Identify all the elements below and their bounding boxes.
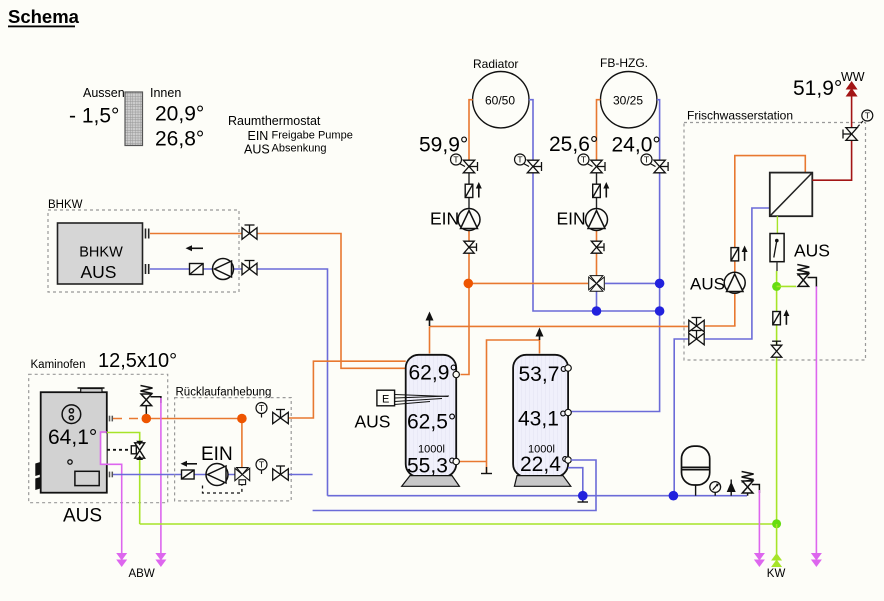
svg-text:KW: KW — [767, 568, 786, 580]
BHKW body — [58, 223, 143, 284]
wire stove supply dashed segment — [113, 418, 146, 420]
svg-text:53,7°: 53,7° — [519, 363, 568, 386]
wire pump to mixer blue — [194, 474, 235, 476]
svg-text:51,9°: 51,9° — [793, 77, 842, 100]
svg-text:T: T — [259, 460, 264, 470]
valve radiator supply — [463, 160, 477, 173]
svg-text:20,9°: 20,9° — [155, 103, 204, 126]
svg-text:BHKW: BHKW — [48, 199, 83, 211]
stove body — [41, 388, 107, 493]
arrow fw discharge down — [811, 553, 822, 567]
valve BHKW supply line — [242, 225, 257, 239]
wire fw primary return blue — [705, 208, 770, 339]
svg-text:BHKW: BHKW — [79, 245, 123, 261]
valve fbhzg below pump — [591, 241, 604, 253]
valve ww — [843, 128, 857, 141]
safety valve fw — [797, 265, 816, 288]
wire BHKW return blue — [150, 269, 328, 496]
wire cold water inlet green — [107, 433, 140, 525]
arrow tank2 riser up — [536, 328, 544, 341]
arrow check valve left — [181, 461, 198, 467]
pump fw — [724, 272, 745, 293]
wire node to safety green — [777, 285, 796, 287]
thermometer T fbhzg return — [641, 154, 656, 167]
svg-text:AUS: AUS — [63, 506, 102, 527]
svg-text:AUS: AUS — [81, 262, 117, 282]
wire cold supply down green — [776, 524, 778, 554]
wire mixer bottom blue — [596, 291, 598, 311]
valve supply Ruecklauf — [273, 410, 289, 424]
stove door — [75, 471, 99, 485]
wire tank2 drain blue — [568, 468, 583, 496]
node tank1 port top right — [453, 371, 459, 377]
svg-text:T: T — [865, 111, 870, 121]
wire fw primary supply orange — [705, 325, 735, 326]
node mixer right — [655, 279, 665, 289]
stove small knob — [68, 460, 72, 464]
svg-text:25,6°: 25,6° — [549, 133, 598, 156]
svg-text:EIN: EIN — [201, 444, 233, 465]
wire BHKW supply orange — [150, 234, 406, 369]
check valve fbhzg — [593, 184, 601, 197]
link pump-valve dashed — [203, 485, 242, 493]
arrow tank1 riser up — [426, 312, 434, 327]
Frischwasserstation dashed enclosure — [684, 123, 866, 361]
thermometer T ww — [856, 110, 873, 129]
node cold main junction — [772, 519, 781, 528]
pump Ruecklaufanhebung — [206, 464, 228, 486]
arrow fw flow up — [742, 246, 748, 261]
svg-text:Radiator: Radiator — [473, 57, 518, 71]
svg-text:EIN: EIN — [557, 209, 586, 229]
thermometer T radiator return — [515, 154, 530, 167]
svg-text:E: E — [382, 394, 389, 406]
pump fbhzg — [586, 209, 608, 231]
svg-text:Freigabe Pumpe: Freigabe Pumpe — [272, 130, 353, 142]
svg-text:64,1°: 64,1° — [48, 426, 97, 449]
wire radiator return blue — [529, 100, 660, 311]
node return mid 1 — [592, 306, 602, 316]
BHKW return connector — [146, 264, 149, 274]
safety valve stove — [141, 386, 161, 419]
svg-text:WW: WW — [841, 70, 865, 84]
flow switch — [770, 234, 784, 262]
node return fw — [669, 491, 679, 501]
heat exchanger — [770, 173, 813, 217]
node cold water junction — [772, 282, 781, 291]
valve return Ruecklauf — [273, 466, 289, 480]
arrow fbhzg flow up — [603, 182, 609, 198]
svg-text:62,9°: 62,9° — [409, 362, 458, 385]
wire mixer right blue — [605, 282, 660, 284]
thermometer T radiator supply — [451, 154, 466, 167]
svg-text:- 1,5°: - 1,5° — [69, 105, 119, 128]
svg-text:AUS: AUS — [244, 143, 270, 157]
valve fbhzg return — [654, 160, 668, 173]
thermometer T fbhzg supply — [578, 154, 593, 167]
svg-text:Innen: Innen — [150, 86, 181, 100]
check valve return — [182, 470, 195, 479]
svg-text:T: T — [644, 155, 649, 165]
svg-text:EIN: EIN — [430, 209, 459, 229]
svg-text:Frischwasserstation: Frischwasserstation — [687, 109, 793, 123]
thermal valve with sensor — [107, 442, 145, 460]
check valve fw — [731, 248, 739, 261]
legend wall — [125, 92, 143, 146]
wire cold water main green — [140, 523, 777, 525]
stove supply connector — [110, 416, 113, 422]
valve BHKW return line — [242, 261, 257, 275]
node tank2 port top right — [565, 365, 571, 371]
svg-text:T: T — [581, 155, 586, 165]
svg-text:T: T — [453, 155, 458, 165]
title Schema — [8, 6, 80, 27]
wire stove supply orange — [146, 418, 242, 420]
manometer — [710, 482, 721, 496]
svg-text:Aussen: Aussen — [83, 86, 125, 100]
svg-text:26,8°: 26,8° — [155, 128, 204, 151]
consumer Radiator circle — [473, 72, 529, 128]
valve cold water — [771, 341, 781, 357]
svg-text:FB-HZG.: FB-HZG. — [600, 56, 648, 70]
node tank2 port bottom right — [565, 457, 571, 463]
svg-text:Rücklaufanhebung: Rücklaufanhebung — [176, 387, 272, 399]
svg-text:T: T — [517, 155, 522, 165]
wire stove supply to tank orange — [288, 361, 405, 418]
check valve BHKW return — [190, 264, 204, 275]
arrow radiator flow up — [476, 182, 482, 198]
node radiator supply junction — [464, 279, 474, 289]
wire tank2 bottom return blue — [313, 460, 596, 511]
arrow BHKW flow left — [186, 245, 204, 251]
wire ww dark red — [812, 96, 851, 180]
node return mid 2 — [655, 306, 665, 316]
mixing valve 3way fbhzg — [589, 276, 605, 292]
thermometer T return Ruecklauf — [256, 459, 267, 474]
safety valve heating — [742, 472, 760, 496]
valve fw return on border — [689, 331, 704, 345]
svg-text:60/50: 60/50 — [485, 94, 515, 108]
valve fw supply on border — [689, 318, 704, 332]
wire main return bottom — [328, 495, 748, 497]
node return drain — [578, 491, 588, 501]
wire black through components radiator — [468, 172, 470, 186]
svg-text:ABW: ABW — [129, 568, 155, 580]
wire tank1 riser orange — [429, 326, 431, 353]
wire safety discharge fw magenta — [815, 286, 817, 553]
pump radiator — [458, 209, 480, 231]
BHKW dashed enclosure — [48, 210, 239, 292]
mixing valve 3way Ruecklauf — [235, 468, 250, 485]
node stove supply junction — [142, 414, 152, 424]
svg-text:62,5°: 62,5° — [407, 411, 456, 434]
wire return out blue — [288, 474, 312, 476]
svg-text:59,9°: 59,9° — [419, 134, 468, 157]
Kaminofen dashed enclosure — [29, 374, 168, 502]
wire fbhzg supply orange — [597, 100, 601, 168]
valve BHKW return — [0, 0, 1, 1]
stove notch white — [101, 433, 106, 463]
arrow discharge 2 down — [155, 553, 166, 567]
svg-text:AUS: AUS — [794, 241, 830, 261]
wire cold to tap green — [776, 271, 778, 524]
node tank2 port middle right — [565, 409, 571, 415]
heater element E — [377, 390, 449, 406]
svg-text:30/25: 30/25 — [613, 94, 643, 108]
wire safety discharge magenta — [160, 398, 162, 553]
svg-text:EIN: EIN — [248, 129, 269, 143]
arrow discharge 1 down — [116, 553, 127, 567]
wire supply to frischwasser long orange — [430, 325, 689, 327]
check valve radiator — [465, 184, 473, 197]
wire hx cold inlet green — [776, 216, 778, 233]
valve radiator return — [527, 160, 541, 173]
consumer FB-HZG circle — [601, 72, 657, 128]
arrow cold water in up double — [771, 553, 782, 567]
stove return connector — [110, 472, 113, 478]
air vent — [727, 480, 736, 496]
valve radiator below pump — [464, 241, 477, 253]
wire heating discharge magenta — [758, 490, 760, 553]
wire radiator supply orange — [469, 100, 473, 168]
svg-text:Schema: Schema — [8, 6, 80, 27]
svg-text:T: T — [259, 403, 264, 413]
pump BHKW — [213, 259, 234, 280]
wire mixer drop orange — [241, 419, 243, 468]
wire stove return blue — [113, 474, 182, 476]
svg-text:Kaminofen: Kaminofen — [31, 359, 86, 371]
svg-text:AUS: AUS — [690, 275, 725, 294]
arrow ww up double — [846, 81, 858, 97]
wire black through components fbhzg — [596, 172, 598, 186]
tank T1 — [402, 355, 460, 487]
tank T2 — [513, 355, 571, 487]
stove burner symbol — [62, 405, 81, 424]
wire thermal discharge magenta — [101, 432, 122, 553]
valve BHKW supply — [0, 0, 1, 1]
svg-text:43,1°: 43,1° — [518, 408, 567, 431]
cap tank2 drain — [578, 496, 589, 502]
wire switch to node black — [776, 262, 778, 271]
wire mix orange from radiator junction to mixer — [468, 282, 588, 284]
arrow cold water up — [783, 310, 789, 325]
expansion vessel — [682, 446, 710, 496]
svg-text:24,0°: 24,0° — [612, 134, 661, 157]
wire fbhzg return blue — [569, 100, 660, 412]
svg-text:AUS: AUS — [355, 412, 391, 432]
BHKW supply connector — [146, 229, 149, 239]
svg-text:12,5x10°: 12,5x10° — [98, 350, 177, 372]
arrow heating discharge down — [754, 553, 765, 567]
valve fbhzg supply — [591, 160, 605, 173]
svg-text:22,4°: 22,4° — [520, 453, 569, 476]
stove handles — [35, 462, 40, 490]
cap transfer pipe — [481, 467, 492, 474]
svg-text:Raumthermostat: Raumthermostat — [228, 114, 321, 128]
svg-text:Absenkung: Absenkung — [272, 143, 327, 155]
svg-text:55,3°: 55,3° — [407, 455, 456, 478]
wire tank1 bottom to tank2 top transfer — [458, 461, 487, 463]
node tank1 port bottom right — [453, 458, 459, 464]
node mixer supply junction — [237, 414, 247, 424]
Ruecklaufanhebung dashed enclosure — [175, 398, 292, 501]
check valve cold water — [773, 312, 781, 325]
thermometer T supply Ruecklauf — [256, 403, 267, 418]
